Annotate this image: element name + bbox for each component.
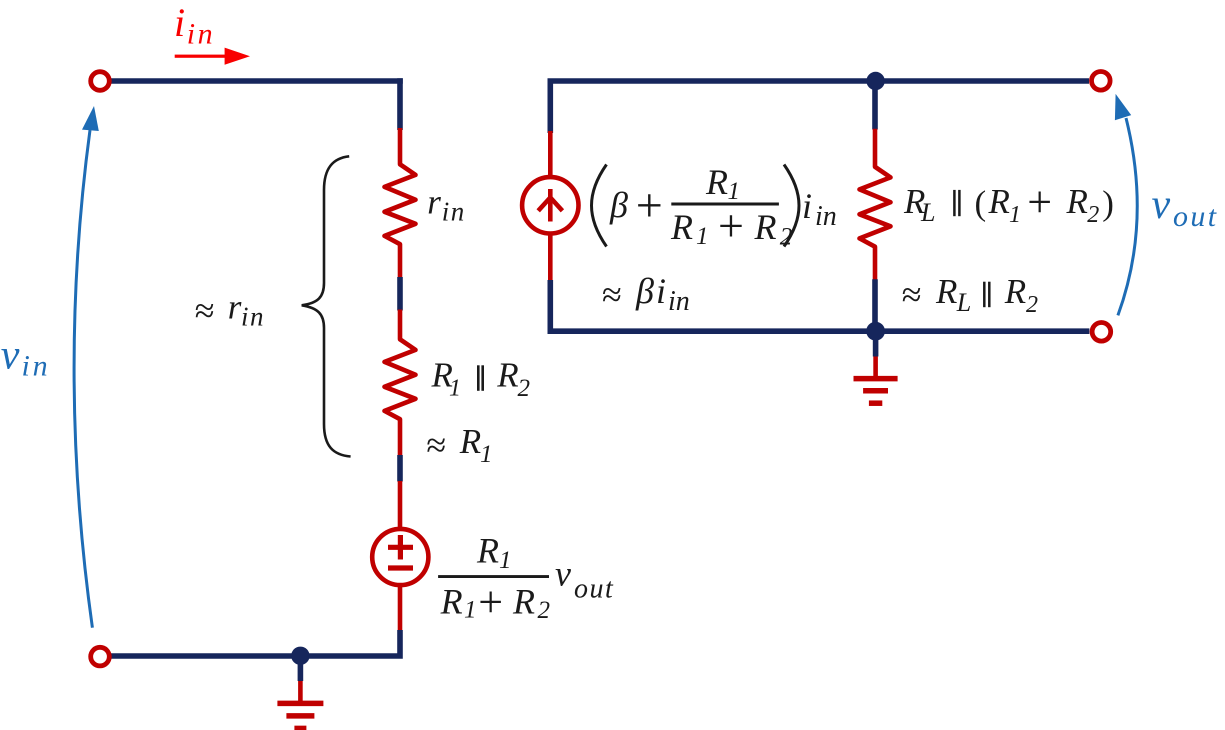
brace — [302, 156, 351, 456]
svg-text:R: R — [459, 422, 481, 461]
label R1 parallel R2 — [431, 356, 531, 402]
wire bottom-left corner — [109, 630, 400, 656]
svg-text:out: out — [574, 574, 614, 605]
svg-text:v: v — [555, 554, 571, 594]
svg-text:+: + — [478, 578, 503, 627]
voltage source V1 lead top — [398, 481, 403, 529]
svg-text:≈: ≈ — [426, 425, 446, 465]
wire segment between resistors — [397, 277, 403, 311]
svg-text:R: R — [496, 356, 518, 395]
svg-text:≈: ≈ — [195, 291, 215, 331]
ground stem left — [298, 656, 304, 681]
label approx R1 — [426, 422, 492, 468]
label i_in — [174, 0, 215, 51]
svg-text:in: in — [187, 18, 215, 51]
output terminal bottom-left — [91, 647, 110, 666]
svg-text:v: v — [1, 332, 20, 378]
svg-text:2: 2 — [538, 597, 551, 624]
svg-text:+: + — [636, 179, 663, 232]
label v_out — [1152, 182, 1219, 233]
wire bottom right circuit — [550, 280, 1089, 331]
voltage source V1 — [372, 529, 428, 585]
label v_in — [1, 332, 51, 382]
label approx beta i_in — [602, 271, 690, 317]
resistor R1 parallel R2 — [385, 310, 416, 456]
svg-text:R: R — [935, 272, 957, 311]
label approx RL parallel R2 — [902, 272, 1038, 318]
svg-text:1: 1 — [464, 597, 477, 624]
svg-text:i: i — [656, 271, 666, 311]
wire middle branch bottom — [872, 279, 878, 331]
svg-text:r: r — [427, 182, 441, 221]
svg-text:in: in — [668, 286, 690, 317]
wire top right circuit — [550, 81, 1089, 133]
junction node bottom — [866, 322, 885, 341]
input terminal top-left — [91, 72, 110, 91]
svg-text:2: 2 — [1087, 202, 1099, 228]
i_in current arrow — [175, 48, 250, 65]
svg-text:1: 1 — [499, 547, 512, 574]
current source — [522, 177, 578, 233]
svg-text:≈: ≈ — [602, 275, 622, 315]
current source lead top — [548, 131, 553, 178]
output terminal top-right — [1092, 72, 1111, 91]
svg-text:): ) — [1102, 184, 1114, 223]
svg-text:2: 2 — [1026, 292, 1038, 318]
svg-text:R: R — [440, 582, 463, 622]
svg-text:≈: ≈ — [902, 274, 922, 314]
svg-text:β: β — [609, 185, 628, 225]
v_in annotation arrow — [74, 130, 92, 628]
svg-text:2: 2 — [518, 375, 531, 402]
svg-text:+: + — [718, 200, 744, 251]
junction node top — [866, 72, 884, 90]
svg-text:R: R — [988, 182, 1010, 221]
svg-text:out: out — [1173, 200, 1219, 233]
svg-text:R: R — [754, 207, 777, 247]
svg-text:in: in — [442, 196, 466, 226]
svg-text:in: in — [241, 302, 265, 332]
ground right bars — [854, 379, 898, 404]
svg-text:i: i — [802, 186, 812, 226]
label (beta + R1/(R1+R2)) i_in — [592, 162, 837, 251]
svg-text:R: R — [1066, 182, 1088, 221]
current source lead bottom — [548, 233, 553, 281]
svg-text:R: R — [1004, 272, 1026, 311]
svg-text:R: R — [670, 207, 693, 247]
resistor RL — [860, 129, 891, 280]
svg-text:R: R — [512, 582, 535, 622]
label RL parallel (R1+R2) — [903, 177, 1114, 228]
svg-text:r: r — [228, 288, 242, 327]
ground stem right — [873, 331, 879, 357]
svg-text:L: L — [920, 198, 935, 227]
svg-text:1: 1 — [1009, 202, 1021, 228]
svg-text:1: 1 — [449, 376, 461, 402]
svg-text:i: i — [174, 0, 185, 45]
svg-text:v: v — [1152, 182, 1171, 228]
svg-text:β: β — [635, 271, 654, 311]
label R1/(R1+R2) v_out — [438, 531, 614, 627]
svg-text:in: in — [815, 201, 837, 232]
resistor r_in — [385, 128, 416, 278]
wire top-left horizontal — [109, 78, 403, 84]
svg-text:1: 1 — [696, 223, 709, 250]
v_out annotation arrow — [1118, 118, 1137, 315]
wire middle branch top — [872, 81, 878, 130]
svg-text:L: L — [956, 288, 971, 317]
label approx r_in — [195, 288, 265, 332]
svg-text:R: R — [705, 162, 728, 202]
svg-text:(: ( — [975, 184, 987, 223]
svg-text:1: 1 — [480, 441, 493, 468]
svg-text:in: in — [22, 349, 51, 382]
svg-text:R: R — [476, 531, 499, 571]
junction node left ground — [291, 647, 309, 665]
output terminal bottom-right — [1092, 323, 1111, 342]
voltage source V1 lead bottom — [398, 585, 403, 631]
wire segment below R1R2 — [397, 455, 403, 482]
ground left bars — [277, 703, 323, 728]
wire left vertical top segment — [397, 78, 403, 130]
svg-text:+: + — [1027, 177, 1052, 226]
